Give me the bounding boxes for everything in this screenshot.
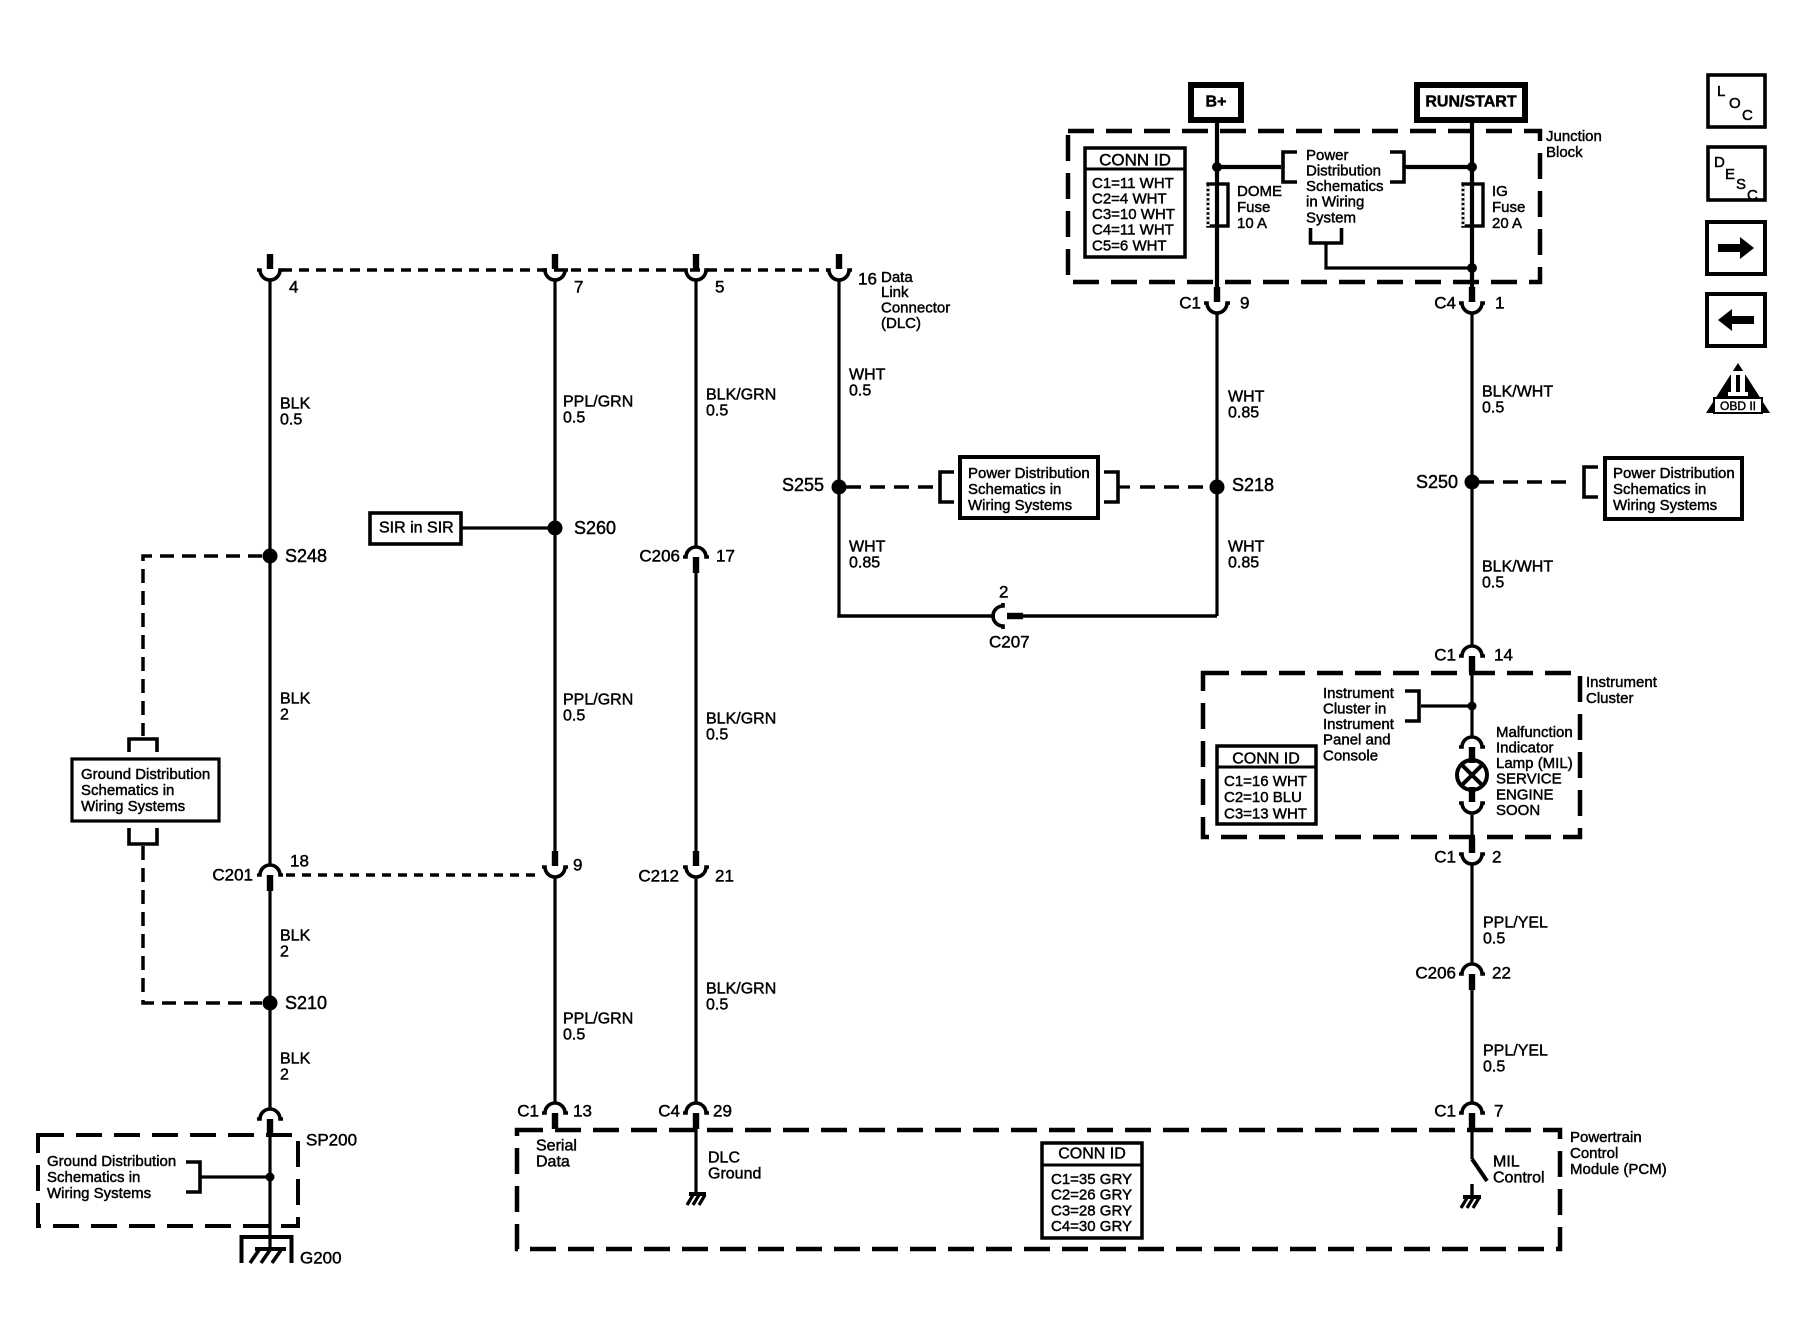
box Power Distribution Schematics in Wiring Systems (right) (1605, 458, 1742, 519)
svg-text:18: 18 (290, 851, 309, 870)
icon DESC box (1708, 147, 1765, 200)
wire col4 to C207 (839, 614, 995, 616)
connector C1 terminal 7 (1459, 1103, 1485, 1129)
svg-text:S: S (1736, 176, 1746, 193)
svg-text:14: 14 (1494, 645, 1513, 664)
svg-text:OBD II: OBD II (1720, 399, 1756, 413)
icon LOC box (1708, 75, 1765, 127)
wire WHT col5 (1215, 313, 1218, 616)
box Ground Distribution Schematics in Wiring Systems (left) (72, 759, 219, 821)
svg-text:C: C (1747, 187, 1758, 204)
connector C206 terminal 17 (683, 547, 709, 573)
wire BLK col1 upper (268, 281, 271, 865)
connector C1 terminal 13 (PCM) (542, 1103, 568, 1129)
svg-text:4: 4 (289, 277, 298, 296)
svg-text:RUN/START: RUN/START (1425, 94, 1516, 111)
svg-text:17: 17 (716, 546, 735, 565)
svg-text:PPL/YEL: PPL/YEL (1483, 1043, 1548, 1060)
svg-text:S250: S250 (1416, 472, 1458, 492)
bracket left of power-distribution text (junction block) (1283, 152, 1297, 182)
ground MIL control symbol (1470, 1184, 1473, 1197)
svg-text:0.5: 0.5 (706, 997, 728, 1014)
splice S250 (1465, 475, 1480, 490)
svg-text:0.5: 0.5 (563, 1027, 585, 1044)
splice S210 (263, 996, 278, 1011)
ground G200 frame (242, 1237, 292, 1263)
svg-text:BLK/GRN: BLK/GRN (706, 981, 776, 998)
connector DLC pin 7 (542, 254, 568, 280)
svg-text:C212: C212 (638, 866, 679, 885)
table CONN ID (instrument cluster) (1217, 746, 1316, 824)
svg-text:9: 9 (573, 855, 582, 874)
svg-text:Wiring Systems: Wiring Systems (47, 1185, 151, 1202)
svg-text:C2=10 BLU: C2=10 BLU (1224, 789, 1302, 806)
svg-text:Control: Control (1570, 1145, 1618, 1162)
svg-text:Schematics in: Schematics in (1613, 481, 1706, 498)
power feed RUN/START box (1417, 85, 1525, 120)
svg-text:21: 21 (715, 866, 734, 885)
svg-text:Serial: Serial (536, 1138, 577, 1155)
svg-text:2: 2 (999, 582, 1008, 601)
junction dot SP200 (266, 1173, 275, 1182)
svg-text:C4: C4 (1434, 293, 1456, 312)
svg-text:7: 7 (1494, 1101, 1503, 1120)
bracket below ground-distribution box (129, 828, 157, 844)
svg-text:Data: Data (536, 1154, 570, 1171)
wire BLK to G200 (268, 1135, 271, 1248)
svg-text:BLK: BLK (280, 691, 311, 708)
wire: DLC dashed bus (282, 268, 827, 271)
connector C1 terminal 2 (1459, 838, 1485, 864)
bracket left of power-distribution box (S255) (940, 472, 954, 502)
svg-text:Wiring Systems: Wiring Systems (81, 798, 185, 815)
svg-text:C3=13 WHT: C3=13 WHT (1224, 805, 1307, 822)
svg-text:BLK/GRN: BLK/GRN (706, 711, 776, 728)
splice S218 (1210, 480, 1225, 495)
svg-text:C1: C1 (1434, 1101, 1456, 1120)
switch MIL Control (1472, 1159, 1487, 1181)
fuse DOME 10A (1208, 184, 1228, 226)
connector C207 terminal 2 (993, 603, 1023, 629)
svg-text:DOME: DOME (1237, 183, 1282, 200)
svg-text:Control: Control (1493, 1170, 1545, 1187)
svg-text:WHT: WHT (849, 367, 886, 384)
svg-text:PPL/GRN: PPL/GRN (563, 394, 633, 411)
svg-text:0.85: 0.85 (1228, 555, 1259, 572)
svg-text:0.5: 0.5 (1483, 931, 1505, 948)
svg-text:Power: Power (1306, 147, 1349, 164)
box dashed Instrument Cluster (1203, 673, 1580, 837)
svg-text:Schematics in: Schematics in (47, 1169, 140, 1186)
icon arrow left box (1707, 294, 1765, 346)
box Power Distribution Schematics in Wiring Systems (mid) (960, 457, 1098, 518)
wire bracket to G200 wire (200, 1175, 266, 1178)
wire dashed S248 to ground-distribution box (143, 556, 262, 736)
svg-text:S210: S210 (285, 993, 327, 1013)
wire WHT col4 (837, 281, 840, 616)
svg-text:PPL/GRN: PPL/GRN (563, 1011, 633, 1028)
svg-text:C3=28 GRY: C3=28 GRY (1051, 1202, 1132, 1219)
svg-text:BLK/WHT: BLK/WHT (1482, 559, 1553, 576)
splice S260 (548, 521, 563, 536)
wire RUN/START down (1470, 120, 1474, 184)
svg-text:C5=6 WHT: C5=6 WHT (1092, 237, 1167, 254)
svg-text:2: 2 (280, 1067, 289, 1084)
svg-text:CONN ID: CONN ID (1099, 150, 1171, 169)
icon OBD II triangle (1706, 363, 1770, 413)
svg-text:9: 9 (1240, 293, 1249, 312)
svg-text:Junction: Junction (1546, 128, 1602, 145)
svg-text:IG: IG (1492, 183, 1508, 200)
svg-text:Malfunction: Malfunction (1496, 724, 1573, 741)
svg-text:13: 13 (573, 1101, 592, 1120)
box dashed Junction Block (1068, 131, 1540, 282)
svg-text:Distribution: Distribution (1306, 163, 1381, 180)
wire C1-14 into cluster (1470, 672, 1473, 736)
splice S248 (263, 549, 278, 564)
svg-text:PPL/YEL: PPL/YEL (1483, 915, 1548, 932)
svg-text:PPL/GRN: PPL/GRN (563, 692, 633, 709)
svg-text:C206: C206 (1415, 963, 1456, 982)
wire BLK/GRN upper (694, 281, 697, 547)
connector DLC pin 5 (683, 254, 709, 280)
svg-text:Console: Console (1323, 747, 1378, 764)
svg-text:D: D (1714, 154, 1725, 171)
svg-text:C1: C1 (1179, 293, 1201, 312)
svg-text:E: E (1725, 166, 1735, 183)
svg-text:System: System (1306, 209, 1356, 226)
svg-text:C1=16 WHT: C1=16 WHT (1224, 773, 1307, 790)
connector C4 terminal 1 (1459, 287, 1485, 313)
wire PPL/GRN upper (553, 281, 556, 851)
wire C1-7 into PCM (1470, 1129, 1473, 1159)
connector DLC pin 4 (257, 254, 283, 280)
bracket left of power-distribution box (S250) (1584, 467, 1598, 497)
wire BLK/GRN mid (694, 573, 697, 851)
svg-text:C1: C1 (1434, 645, 1456, 664)
svg-text:WHT: WHT (1228, 539, 1265, 556)
svg-text:Power Distribution: Power Distribution (1613, 465, 1735, 482)
wire dashed C201-18 to connector 9 (286, 873, 541, 876)
svg-text:Indicator: Indicator (1496, 740, 1554, 757)
svg-text:29: 29 (713, 1101, 732, 1120)
table CONN ID (junction block) (1085, 148, 1185, 257)
connector SP200 splice pack (257, 1109, 283, 1135)
svg-text:22: 22 (1492, 963, 1511, 982)
connector terminal 9 (inline) (542, 851, 568, 877)
svg-text:Schematics in: Schematics in (968, 481, 1061, 498)
wire B+ tap to bracket (1217, 165, 1281, 169)
svg-text:C: C (1742, 107, 1753, 124)
connector C4 terminal 29 (PCM) (683, 1103, 709, 1129)
svg-text:0.5: 0.5 (1483, 1059, 1505, 1076)
svg-text:BLK: BLK (280, 396, 311, 413)
svg-text:Ground Distribution: Ground Distribution (81, 766, 210, 783)
box dashed SP200 ground distribution (38, 1135, 298, 1226)
icon arrow right box (1707, 222, 1765, 274)
svg-text:(DLC): (DLC) (881, 315, 921, 332)
svg-text:O: O (1729, 95, 1741, 112)
svg-text:C1: C1 (1434, 847, 1456, 866)
svg-text:C201: C201 (212, 865, 253, 884)
wire IG fuse to C4-1 (1470, 226, 1474, 288)
svg-text:C1=11 WHT: C1=11 WHT (1092, 175, 1174, 192)
box SIR in SIR (370, 513, 461, 544)
svg-text:C2=4 WHT: C2=4 WHT (1092, 191, 1167, 208)
wire SIR box to S260 (461, 526, 549, 529)
svg-text:CONN ID: CONN ID (1232, 751, 1300, 768)
svg-text:WHT: WHT (1228, 389, 1265, 406)
svg-text:S260: S260 (574, 518, 616, 538)
svg-text:C4=11 WHT: C4=11 WHT (1092, 222, 1174, 239)
svg-text:Instrument: Instrument (1323, 716, 1395, 733)
bracket right of Instrument-Cluster-in text (1405, 691, 1419, 721)
connector C201 terminal 18 (257, 865, 283, 891)
svg-text:1: 1 (1495, 293, 1504, 312)
wire C207 to col5 (1023, 614, 1217, 618)
svg-text:0.5: 0.5 (563, 708, 585, 725)
svg-text:Powertrain: Powertrain (1570, 1129, 1642, 1146)
svg-text:16: 16 (858, 269, 877, 288)
svg-text:L: L (1717, 83, 1725, 100)
junction dot IG lower tap (1467, 263, 1477, 273)
svg-text:0.5: 0.5 (706, 727, 728, 744)
svg-text:2: 2 (280, 944, 289, 961)
svg-text:2: 2 (1492, 847, 1501, 866)
svg-text:S255: S255 (782, 475, 824, 495)
box dashed Powertrain Control Module (517, 1130, 1560, 1249)
svg-text:20 A: 20 A (1492, 215, 1522, 232)
svg-text:SOON: SOON (1496, 802, 1540, 819)
bracket above ground-distribution box (129, 739, 157, 752)
svg-text:C207: C207 (989, 632, 1030, 651)
svg-text:Instrument: Instrument (1586, 674, 1658, 691)
table CONN ID (PCM) (1042, 1143, 1142, 1238)
wire through IG fuse (1470, 184, 1474, 226)
svg-text:B+: B+ (1206, 94, 1227, 111)
svg-text:Wiring Systems: Wiring Systems (1613, 497, 1717, 514)
junction dot IG tap (1467, 162, 1477, 172)
svg-text:Module (PCM): Module (PCM) (1570, 1161, 1667, 1178)
svg-text:Fuse: Fuse (1237, 199, 1270, 216)
svg-text:C4: C4 (658, 1101, 680, 1120)
bracket right of power-distribution box (S218) (1104, 472, 1118, 502)
svg-text:Cluster in: Cluster in (1323, 701, 1386, 718)
svg-text:Panel and: Panel and (1323, 732, 1391, 749)
wire BLK col1 mid (268, 891, 271, 1109)
ground DLC Ground symbol (689, 1192, 706, 1196)
bracket right of SP200 text (186, 1162, 200, 1192)
wire stub bracket right (1118, 485, 1130, 488)
svg-text:C3=10 WHT: C3=10 WHT (1092, 206, 1175, 223)
wire dashed S255 to bracket (846, 485, 936, 489)
wire under-bracket down (1326, 243, 1472, 268)
svg-text:WHT: WHT (849, 539, 886, 556)
bracket right of power-distribution text (junction block) (1390, 152, 1404, 182)
svg-text:Lamp (MIL): Lamp (MIL) (1496, 755, 1573, 772)
svg-text:5: 5 (715, 277, 724, 296)
svg-text:DLC: DLC (708, 1150, 740, 1167)
svg-text:MIL: MIL (1493, 1154, 1520, 1171)
connector C206 terminal 22 (1459, 964, 1485, 990)
wire dashed bracket to S218 (1140, 485, 1209, 489)
wire dashed S250 to bracket (1479, 480, 1572, 484)
connector DLC pin 16 (826, 254, 852, 280)
wire B+ down (1215, 120, 1219, 184)
svg-text:0.5: 0.5 (849, 383, 871, 400)
svg-text:Cluster: Cluster (1586, 690, 1634, 707)
svg-text:BLK: BLK (280, 1051, 311, 1068)
fuse IG 20A (1463, 184, 1483, 226)
svg-text:S248: S248 (285, 546, 327, 566)
svg-text:C1=35 GRY: C1=35 GRY (1051, 1171, 1132, 1188)
svg-text:7: 7 (574, 277, 583, 296)
lamp MIL bulb (1457, 760, 1487, 790)
svg-text:BLK/GRN: BLK/GRN (706, 387, 776, 404)
wire dashed box to S210 (143, 846, 262, 1003)
wire fuse to C1-9 (1215, 226, 1219, 288)
lamp socket bottom (MIL) (1459, 787, 1485, 813)
svg-text:10 A: 10 A (1237, 215, 1267, 232)
svg-text:0.5: 0.5 (706, 403, 728, 420)
connector C212 terminal 21 (683, 851, 709, 877)
svg-text:SIR in SIR: SIR in SIR (379, 520, 454, 537)
svg-text:C4=30 GRY: C4=30 GRY (1051, 1218, 1132, 1235)
svg-text:0.5: 0.5 (563, 410, 585, 427)
wire cluster bracket (1421, 704, 1472, 707)
svg-text:0.85: 0.85 (849, 555, 880, 572)
wire BLK/GRN lower (694, 877, 697, 1102)
svg-text:0.5: 0.5 (280, 412, 302, 429)
wire BLK/WHT upper (1470, 313, 1473, 645)
svg-text:Block: Block (1546, 144, 1583, 161)
junction dot B+ tap (1212, 162, 1222, 172)
svg-text:Power Distribution: Power Distribution (968, 465, 1090, 482)
svg-text:SP200: SP200 (306, 1130, 357, 1149)
wire PPL/YEL upper (1470, 864, 1473, 963)
svg-text:BLK/WHT: BLK/WHT (1482, 384, 1553, 401)
svg-text:0.5: 0.5 (1482, 575, 1504, 592)
connector C1 terminal 14 (1459, 646, 1485, 672)
svg-text:C2=26 GRY: C2=26 GRY (1051, 1187, 1132, 1204)
wire to DLC ground (694, 1129, 697, 1194)
bracket under System text (1311, 228, 1342, 243)
svg-text:Ground: Ground (708, 1166, 761, 1183)
svg-text:Fuse: Fuse (1492, 199, 1525, 216)
wire PPL/GRN lower (553, 877, 556, 1102)
svg-text:in Wiring: in Wiring (1306, 194, 1364, 211)
svg-text:0.5: 0.5 (1482, 400, 1504, 417)
junction dot cluster (1468, 702, 1477, 711)
wire bracket to IG wire (1404, 165, 1472, 169)
svg-text:Schematics in: Schematics in (81, 782, 174, 799)
svg-text:Instrument: Instrument (1323, 685, 1395, 702)
connector C1 terminal 9 (1204, 287, 1230, 313)
lamp socket top (MIL) (1459, 737, 1485, 763)
wire through DOME fuse (1215, 184, 1219, 226)
svg-text:2: 2 (280, 707, 289, 724)
ground G200 hatch (255, 1247, 286, 1251)
svg-text:Schematics: Schematics (1306, 178, 1384, 195)
svg-text:Ground Distribution: Ground Distribution (47, 1153, 176, 1170)
power feed B+ box (1191, 85, 1241, 120)
svg-text:SERVICE: SERVICE (1496, 771, 1562, 788)
svg-text:0.85: 0.85 (1228, 405, 1259, 422)
svg-text:ENGINE: ENGINE (1496, 786, 1554, 803)
svg-text:G200: G200 (300, 1248, 342, 1267)
svg-text:S218: S218 (1232, 475, 1274, 495)
svg-text:BLK: BLK (280, 928, 311, 945)
splice S255 (832, 480, 847, 495)
svg-text:C1: C1 (517, 1101, 539, 1120)
svg-text:CONN ID: CONN ID (1058, 1146, 1126, 1163)
wire PPL/YEL lower (1470, 990, 1473, 1102)
wire lamp to C1-2 (1470, 813, 1473, 841)
svg-text:Wiring Systems: Wiring Systems (968, 497, 1072, 514)
svg-text:C206: C206 (639, 546, 680, 565)
